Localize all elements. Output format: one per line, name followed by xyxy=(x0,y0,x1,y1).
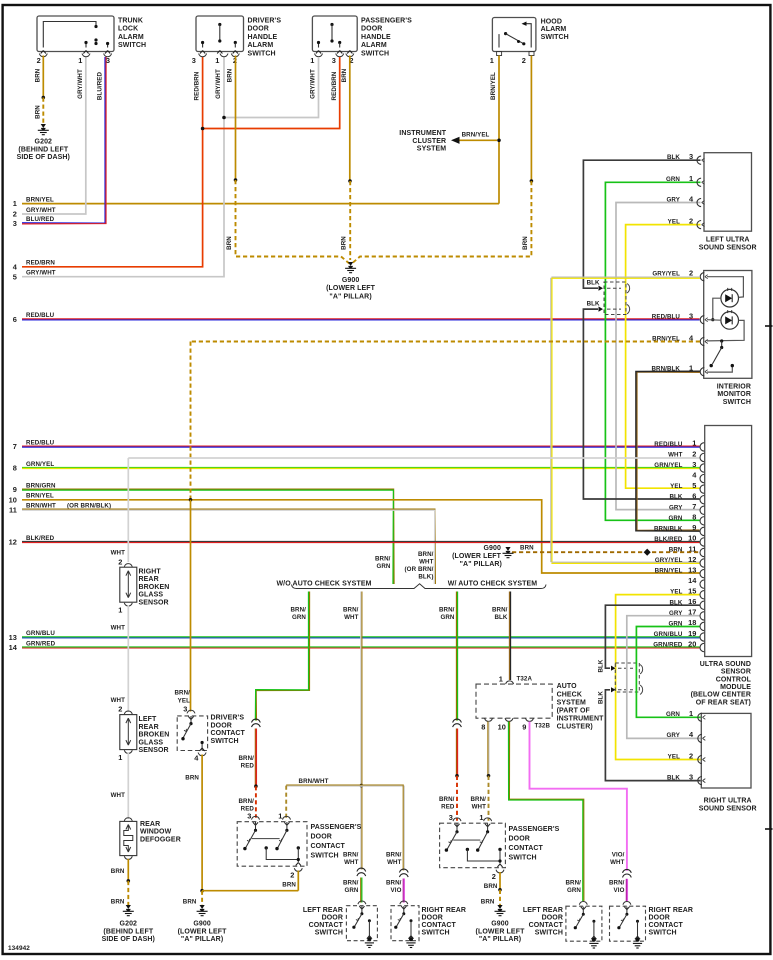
wire VIO/WHT from pin9 xyxy=(530,722,627,871)
svg-text:BROKEN: BROKEN xyxy=(139,732,170,739)
svg-text:GRN: GRN xyxy=(567,887,581,894)
svg-text:1: 1 xyxy=(215,56,219,65)
svg-text:OF REAR SEAT): OF REAR SEAT) xyxy=(696,699,751,706)
right ultra sound sensor box xyxy=(701,713,751,788)
svg-text:(OR BRN/BLK): (OR BRN/BLK) xyxy=(67,503,111,510)
svg-text:2: 2 xyxy=(290,871,294,880)
svg-text:14: 14 xyxy=(688,576,697,585)
svg-text:LEFT ULTRA: LEFT ULTRA xyxy=(706,237,750,244)
wire BRN/GRN from pin10 xyxy=(509,722,583,902)
svg-text:(BELOW CENTER: (BELOW CENTER xyxy=(691,692,751,699)
svg-text:RED/BLU: RED/BLU xyxy=(26,439,55,446)
svg-text:BRN/: BRN/ xyxy=(492,606,508,613)
svg-text:BLK: BLK xyxy=(494,614,507,621)
svg-text:GRN: GRN xyxy=(376,563,390,570)
svg-text:1: 1 xyxy=(689,709,693,718)
inline connector lower BLK xyxy=(615,663,639,692)
svg-text:3: 3 xyxy=(449,813,453,822)
svg-text:13: 13 xyxy=(9,633,17,642)
instrument cluster arrow xyxy=(458,139,497,141)
interior monitor LED1 xyxy=(721,289,739,307)
svg-text:"A" PILLAR): "A" PILLAR) xyxy=(329,293,371,300)
svg-text:BRN/: BRN/ xyxy=(375,556,391,563)
svg-text:SWITCH: SWITCH xyxy=(723,399,751,406)
svg-text:BRN: BRN xyxy=(282,882,296,889)
svg-text:BRN: BRN xyxy=(185,774,199,781)
svg-text:GRN: GRN xyxy=(344,887,358,894)
svg-text:DOOR: DOOR xyxy=(509,836,530,843)
svg-text:GRN: GRN xyxy=(292,614,306,621)
svg-text:BRN/: BRN/ xyxy=(565,879,581,886)
drivers door contact switch pin3 xyxy=(187,710,195,713)
interior monitor pin2 connector xyxy=(700,273,704,281)
svg-text:INSTRUMENT: INSTRUMENT xyxy=(557,716,605,723)
svg-text:SYSTEM: SYSTEM xyxy=(557,699,586,706)
wire BRN dashed module pin11 G900 xyxy=(512,551,700,553)
passenger mid pin2 xyxy=(496,870,504,873)
svg-text:W/ AUTO CHECK SYSTEM: W/ AUTO CHECK SYSTEM xyxy=(448,581,538,588)
wire GRN/RED circuit 14 xyxy=(22,646,700,648)
svg-text:WHT: WHT xyxy=(111,792,126,799)
svg-text:REAR: REAR xyxy=(140,821,160,828)
svg-text:BRN: BRN xyxy=(522,236,529,250)
svg-text:BRN/: BRN/ xyxy=(290,606,306,613)
right edge tick lower xyxy=(765,828,773,830)
left rear broken glass sensor xyxy=(124,711,132,714)
svg-text:7: 7 xyxy=(13,442,17,451)
svg-text:(BEHIND LEFT: (BEHIND LEFT xyxy=(18,146,68,153)
svg-text:"A" PILLAR): "A" PILLAR) xyxy=(460,561,502,568)
svg-text:BLK/RED: BLK/RED xyxy=(26,535,55,542)
wire BRN/GRN mid xyxy=(360,878,362,903)
wire WHT module pin2 to glass sensors xyxy=(128,457,699,459)
svg-text:"A" PILLAR): "A" PILLAR) xyxy=(181,936,223,943)
wire GRN/YEL circuit 8 xyxy=(22,466,700,468)
svg-text:GRY/WHT: GRY/WHT xyxy=(215,69,222,99)
svg-text:SWITCH: SWITCH xyxy=(361,51,389,58)
svg-text:BRN/: BRN/ xyxy=(174,689,190,696)
wire BRN/VIO right xyxy=(625,879,627,901)
svg-text:GRN: GRN xyxy=(668,515,682,522)
svg-text:ALARM: ALARM xyxy=(541,26,567,33)
svg-text:2: 2 xyxy=(692,449,696,458)
wire BRN hood xyxy=(530,56,532,182)
svg-text:GRY/WHT: GRY/WHT xyxy=(26,270,56,277)
svg-text:WHT: WHT xyxy=(419,559,434,566)
wire BRN/WHT left drop to passenger pin1 xyxy=(285,786,287,821)
svg-text:GRN: GRN xyxy=(666,176,680,183)
wire BRN/YEL circuit 10 xyxy=(22,500,700,573)
hood alarm switch box xyxy=(492,18,536,52)
wire WHT between glass sensors xyxy=(127,606,129,713)
inline connector upper BLK xyxy=(604,282,626,315)
passengers door handle alarm switch internals xyxy=(330,23,333,26)
svg-text:WHT: WHT xyxy=(344,859,359,866)
svg-text:CONTACT: CONTACT xyxy=(309,922,344,929)
svg-text:CONTACT: CONTACT xyxy=(649,922,684,929)
svg-text:WHT: WHT xyxy=(111,697,126,704)
svg-text:HOOD: HOOD xyxy=(541,18,562,25)
wire BRN passenger mid pin2 xyxy=(499,872,501,890)
wire GRN module pin18 to right sensor xyxy=(636,627,700,718)
svg-text:2: 2 xyxy=(689,216,693,225)
svg-text:SENSOR: SENSOR xyxy=(139,600,169,607)
svg-text:3: 3 xyxy=(689,312,693,321)
svg-text:WHT: WHT xyxy=(472,803,487,810)
svg-text:DOOR: DOOR xyxy=(422,914,443,921)
wire BRN/YEL circuit 1 xyxy=(22,203,499,205)
svg-text:GRN/BLU: GRN/BLU xyxy=(654,631,683,638)
svg-text:BROKEN: BROKEN xyxy=(139,584,170,591)
svg-text:9: 9 xyxy=(692,523,696,532)
svg-text:WINDOW: WINDOW xyxy=(140,829,172,836)
svg-text:GRY/WHT: GRY/WHT xyxy=(26,207,56,214)
svg-text:BRN/WHT: BRN/WHT xyxy=(299,778,329,785)
svg-text:CONTACT: CONTACT xyxy=(422,922,457,929)
svg-text:INSTRUMENT: INSTRUMENT xyxy=(399,130,447,137)
svg-text:SWITCH: SWITCH xyxy=(541,34,569,41)
svg-text:SWITCH: SWITCH xyxy=(422,930,450,937)
wire WHT to defogger xyxy=(127,753,129,819)
wire BRN/GRN branch A xyxy=(256,592,309,721)
svg-text:(PART OF: (PART OF xyxy=(557,708,591,715)
wire YEL module pin15 to right sensor xyxy=(616,595,701,760)
svg-text:GRN/YEL: GRN/YEL xyxy=(654,462,682,469)
svg-text:2: 2 xyxy=(689,751,693,760)
svg-text:BRN: BRN xyxy=(111,898,125,905)
ground G900 lower mid xyxy=(497,905,502,909)
svg-text:7: 7 xyxy=(692,502,696,511)
wire BLK module pin16 lower to right sensor xyxy=(605,690,700,781)
svg-text:DEFOGGER: DEFOGGER xyxy=(140,836,181,843)
svg-text:CONTACT: CONTACT xyxy=(311,843,346,850)
wire GRY/WHT circuit 5 xyxy=(22,57,224,277)
left sensor pin3 BLK xyxy=(583,160,700,288)
passengers door contact switch left box xyxy=(237,822,307,867)
wire BLU/RED circuit 3 xyxy=(22,57,105,223)
svg-text:CONTACT: CONTACT xyxy=(211,730,246,737)
svg-text:BLU/RED: BLU/RED xyxy=(26,216,55,223)
svg-text:SWITCH: SWITCH xyxy=(535,930,563,937)
svg-text:PASSENGER'S: PASSENGER'S xyxy=(509,826,560,833)
svg-text:CONTROL: CONTROL xyxy=(716,676,752,683)
module pin connectors and labels xyxy=(700,443,704,451)
svg-text:6: 6 xyxy=(13,315,17,324)
wire BRN/YEL hood pin1 xyxy=(498,56,500,204)
wire RED/BLU circuit 6 xyxy=(22,318,700,320)
svg-text:2: 2 xyxy=(118,557,122,566)
svg-text:G900: G900 xyxy=(491,921,509,928)
svg-text:CHECK: CHECK xyxy=(557,691,582,698)
svg-text:BRN/: BRN/ xyxy=(238,798,254,805)
interior monitor switch box xyxy=(704,271,752,379)
svg-text:SWITCH: SWITCH xyxy=(649,930,677,937)
svg-text:YEL: YEL xyxy=(178,697,190,704)
wire BRN trunk pin2 xyxy=(42,56,44,98)
svg-text:RIGHT: RIGHT xyxy=(139,568,162,575)
passenger left pin2 xyxy=(294,868,302,871)
svg-text:(BEHIND LEFT: (BEHIND LEFT xyxy=(103,928,153,935)
svg-text:LEFT: LEFT xyxy=(139,716,158,723)
svg-text:BRN: BRN xyxy=(35,105,42,119)
connector BRN/GRN to BRN/RED A xyxy=(252,719,261,722)
connector BRN/WHT to BRN/VIO left xyxy=(399,869,408,872)
svg-text:REAR: REAR xyxy=(139,724,159,731)
svg-text:BRN: BRN xyxy=(341,68,348,82)
passengers door contact switch left internals xyxy=(253,822,258,825)
svg-text:RED: RED xyxy=(441,803,455,810)
wire GRY/WHT driver-passenger link xyxy=(224,57,319,118)
drivers door contact pin4 xyxy=(198,753,206,756)
trunk lock alarm switch internals xyxy=(43,22,96,48)
svg-text:RED: RED xyxy=(241,762,255,769)
interior monitor pin1 connector xyxy=(700,368,704,376)
wire BRN driver contact to G900 xyxy=(201,755,203,891)
svg-text:VIO: VIO xyxy=(391,887,402,894)
ground G900 upper xyxy=(348,262,353,266)
svg-text:10: 10 xyxy=(9,495,17,504)
svg-text:SOUND SENSOR: SOUND SENSOR xyxy=(699,805,757,812)
svg-text:BRN/: BRN/ xyxy=(343,879,359,886)
svg-text:SENSOR: SENSOR xyxy=(721,669,751,676)
trunk switch pin cups xyxy=(39,54,47,57)
svg-text:GRY: GRY xyxy=(667,732,681,739)
wire BRN defogger to G202 xyxy=(127,859,129,881)
svg-text:ALARM: ALARM xyxy=(248,42,274,49)
svg-text:MODULE: MODULE xyxy=(720,684,751,691)
interior monitor pin3 connector xyxy=(700,316,704,324)
svg-text:2: 2 xyxy=(492,872,496,881)
svg-text:SWITCH: SWITCH xyxy=(211,738,239,745)
svg-text:BLK): BLK) xyxy=(418,574,433,581)
wire GRY/YEL xyxy=(551,276,700,278)
svg-text:(LOWER LEFT: (LOWER LEFT xyxy=(178,928,228,935)
wire RED/BRN driver-passenger link xyxy=(203,57,340,129)
drivers door handle alarm switch box xyxy=(196,16,244,52)
passengers door contact switch left pins xyxy=(252,816,260,819)
wire BRN/BLK branch D xyxy=(508,592,510,681)
svg-text:GRY/WHT: GRY/WHT xyxy=(310,69,317,99)
svg-text:BRN: BRN xyxy=(183,898,197,905)
wire BRN/GRN circuit 9 xyxy=(22,489,394,584)
wire BRN passenger handle xyxy=(349,56,351,182)
svg-text:SENSOR: SENSOR xyxy=(139,747,169,754)
svg-text:BRN/: BRN/ xyxy=(609,879,625,886)
svg-text:11: 11 xyxy=(9,505,17,514)
driver switch pin cups xyxy=(199,54,207,57)
svg-text:DRIVER'S: DRIVER'S xyxy=(248,17,282,24)
svg-text:BRN/: BRN/ xyxy=(470,796,486,803)
svg-text:SOUND SENSOR: SOUND SENSOR xyxy=(699,244,757,251)
svg-text:10: 10 xyxy=(688,534,696,543)
wire BLK lower segment to module pin6 xyxy=(583,309,699,499)
svg-text:SWITCH: SWITCH xyxy=(509,855,537,862)
svg-text:8: 8 xyxy=(13,464,17,473)
right edge tick upper xyxy=(765,325,773,327)
svg-text:CONTACT: CONTACT xyxy=(509,845,544,852)
svg-text:WHT: WHT xyxy=(111,549,126,556)
svg-text:BRN: BRN xyxy=(481,898,495,905)
svg-text:GRN/YEL: GRN/YEL xyxy=(26,461,54,468)
svg-text:134942: 134942 xyxy=(8,945,30,952)
svg-text:T32A: T32A xyxy=(517,676,533,683)
svg-text:BLK: BLK xyxy=(667,774,680,781)
svg-text:BLK: BLK xyxy=(587,301,600,308)
svg-text:BLK: BLK xyxy=(669,494,682,501)
svg-text:DOOR: DOOR xyxy=(211,722,232,729)
passenger switch pin cups xyxy=(315,54,323,57)
svg-text:GLASS: GLASS xyxy=(139,592,164,599)
connector VIO/WHT to BRN/VIO xyxy=(623,869,632,872)
svg-text:BLU/RED: BLU/RED xyxy=(97,71,104,100)
wire BRN driver handle xyxy=(235,56,237,181)
wire BRN/RED branch C xyxy=(455,729,457,776)
svg-text:BRN/YEL: BRN/YEL xyxy=(490,72,497,100)
svg-text:GRY/WHT: GRY/WHT xyxy=(77,69,84,99)
wire BRN/YEL dashed branch xyxy=(191,341,701,343)
auto check pin1 T32A xyxy=(506,681,514,684)
svg-text:BLK: BLK xyxy=(587,280,600,287)
svg-text:CLUSTER): CLUSTER) xyxy=(557,724,593,731)
svg-text:(LOWER LEFT: (LOWER LEFT xyxy=(452,553,502,560)
svg-text:T32B: T32B xyxy=(535,723,551,730)
svg-text:BRN/: BRN/ xyxy=(343,851,359,858)
svg-text:SIDE OF DASH): SIDE OF DASH) xyxy=(17,154,70,161)
svg-text:DOOR: DOOR xyxy=(649,914,670,921)
wire BLK module pin16 upper xyxy=(605,605,699,668)
passengers door contact switch mid box xyxy=(440,823,506,868)
wire BRN/WHT horizontal xyxy=(286,784,404,786)
auto check bottom pins xyxy=(485,718,493,721)
svg-text:DOOR: DOOR xyxy=(542,914,563,921)
connector BRN/WHT to BRN/GRN mid xyxy=(357,868,366,871)
svg-text:BRN/YEL: BRN/YEL xyxy=(462,132,490,139)
interior monitor internal wiring xyxy=(707,277,743,298)
svg-text:9: 9 xyxy=(522,723,526,732)
svg-text:RIGHT REAR: RIGHT REAR xyxy=(422,907,467,914)
svg-text:AUTO: AUTO xyxy=(557,683,578,690)
ground G900 module xyxy=(505,547,510,551)
svg-text:WHT: WHT xyxy=(111,624,126,631)
passengers door contact switch mid pins xyxy=(453,818,461,821)
option brace xyxy=(292,584,547,589)
svg-text:ULTRA SOUND: ULTRA SOUND xyxy=(700,661,751,668)
svg-text:1: 1 xyxy=(78,56,82,65)
svg-text:"A" PILLAR): "A" PILLAR) xyxy=(479,936,521,943)
svg-text:RED/BLU: RED/BLU xyxy=(26,312,55,319)
svg-text:PASSENGER'S: PASSENGER'S xyxy=(311,824,362,831)
svg-text:BLK: BLK xyxy=(598,691,605,704)
svg-text:BRN: BRN xyxy=(226,236,233,250)
left sensor pin1 GRN xyxy=(605,182,700,520)
svg-text:1: 1 xyxy=(118,606,122,615)
wire BRN/RED branch A xyxy=(254,729,256,787)
svg-text:BRN/: BRN/ xyxy=(386,879,402,886)
svg-text:RIGHT REAR: RIGHT REAR xyxy=(649,907,694,914)
svg-text:6: 6 xyxy=(692,492,696,501)
svg-text:BRN/: BRN/ xyxy=(439,796,455,803)
wire BRN/GRN branch C xyxy=(455,592,457,721)
svg-text:2: 2 xyxy=(689,269,693,278)
svg-text:3: 3 xyxy=(689,152,693,161)
svg-text:RIGHT ULTRA: RIGHT ULTRA xyxy=(704,798,752,805)
svg-text:SYSTEM: SYSTEM xyxy=(417,146,446,153)
svg-text:BRN/WHT: BRN/WHT xyxy=(26,503,56,510)
svg-text:DOOR: DOOR xyxy=(361,26,382,33)
ground G202 lower xyxy=(126,905,131,909)
svg-text:GRY: GRY xyxy=(669,504,683,511)
svg-text:BLK: BLK xyxy=(598,659,605,672)
hood switch pin tabs xyxy=(497,52,502,56)
svg-text:BRN/GRN: BRN/GRN xyxy=(26,482,56,489)
svg-text:BRN: BRN xyxy=(111,868,125,875)
svg-text:G202: G202 xyxy=(120,921,138,928)
svg-text:GRN: GRN xyxy=(666,711,680,718)
svg-text:DRIVER'S: DRIVER'S xyxy=(211,715,245,722)
svg-text:MONITOR: MONITOR xyxy=(717,391,751,398)
wire RED/BLU circuit 7 xyxy=(22,445,700,447)
wire BRN passenger left pin2 xyxy=(297,871,299,891)
passengers door contact switch mid internals xyxy=(454,824,459,827)
svg-text:14: 14 xyxy=(9,643,18,652)
svg-text:G900: G900 xyxy=(483,545,501,552)
svg-text:3: 3 xyxy=(183,705,187,714)
svg-text:BRN/YEL: BRN/YEL xyxy=(26,196,54,203)
svg-text:GRN/RED: GRN/RED xyxy=(653,642,683,649)
svg-text:G900: G900 xyxy=(193,921,211,928)
left ultra sound sensor box xyxy=(704,153,752,232)
interior monitor pin4 connector xyxy=(700,337,704,345)
drivers door contact switch box xyxy=(177,716,207,751)
svg-text:10: 10 xyxy=(498,723,506,732)
svg-text:WHT: WHT xyxy=(610,859,625,866)
svg-text:INTERIOR: INTERIOR xyxy=(717,383,751,390)
svg-text:5: 5 xyxy=(692,481,696,490)
svg-text:1: 1 xyxy=(490,56,494,65)
svg-text:BRN/: BRN/ xyxy=(343,606,359,613)
connector BRN/GRN to BRN/RED C xyxy=(453,719,462,722)
svg-text:13: 13 xyxy=(688,565,696,574)
ground G202 upper xyxy=(41,124,46,128)
svg-text:12: 12 xyxy=(688,555,696,564)
wire BRN/WHT branch B xyxy=(361,592,363,870)
svg-text:3: 3 xyxy=(332,56,336,65)
svg-text:9: 9 xyxy=(13,485,17,494)
svg-text:(OR BRN/: (OR BRN/ xyxy=(405,566,434,573)
right rear door contact switch B xyxy=(623,902,631,905)
wire BRN/WHT circuit 11 xyxy=(22,509,435,584)
left rear door contact switch B xyxy=(579,902,587,905)
svg-text:BLK/RED: BLK/RED xyxy=(654,536,683,543)
svg-text:BLK: BLK xyxy=(667,154,680,161)
svg-text:19: 19 xyxy=(688,629,696,638)
svg-text:G202: G202 xyxy=(35,139,53,146)
svg-text:12: 12 xyxy=(9,538,17,547)
svg-text:DOOR: DOOR xyxy=(322,914,343,921)
svg-text:LEFT REAR: LEFT REAR xyxy=(523,907,563,914)
svg-text:3: 3 xyxy=(247,811,251,820)
svg-text:GRN/RED: GRN/RED xyxy=(26,640,56,647)
wire BRN/VIO left xyxy=(402,879,404,903)
svg-text:BRN: BRN xyxy=(227,68,234,82)
svg-text:WHT: WHT xyxy=(387,859,402,866)
svg-text:3: 3 xyxy=(13,219,17,228)
svg-text:TRUNK: TRUNK xyxy=(118,17,143,24)
svg-text:SWITCH: SWITCH xyxy=(118,42,146,49)
svg-text:BRN/: BRN/ xyxy=(418,551,434,558)
svg-text:BRN: BRN xyxy=(484,883,498,890)
svg-text:W/O AUTO CHECK SYSTEM: W/O AUTO CHECK SYSTEM xyxy=(276,581,371,588)
